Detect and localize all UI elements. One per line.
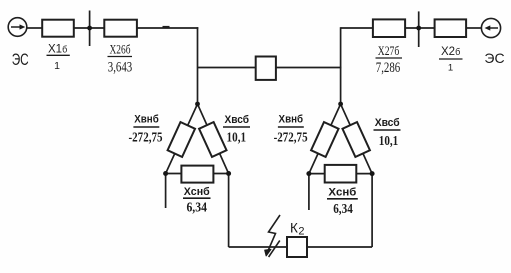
svg-text:7,286: 7,286 <box>376 60 401 76</box>
svg-text:3,643: 3,643 <box>108 59 133 75</box>
svg-text:Хвнб: Хвнб <box>279 114 304 126</box>
svg-text:-272,75: -272,75 <box>129 131 163 146</box>
svg-text:6,34: 6,34 <box>186 201 207 216</box>
svg-text:10,1: 10,1 <box>379 134 399 149</box>
svg-text:Хснб: Хснб <box>328 187 356 199</box>
svg-text:-272,75: -272,75 <box>274 131 308 146</box>
svg-text:1: 1 <box>448 62 453 73</box>
svg-text:Х1б: Х1б <box>48 43 67 55</box>
svg-text:Х26б: Х26б <box>110 42 131 56</box>
svg-text:Х27б: Х27б <box>378 44 400 58</box>
svg-text:10,1: 10,1 <box>227 131 247 146</box>
svg-text:Хвсб: Хвсб <box>375 117 400 129</box>
svg-text:6,34: 6,34 <box>333 202 353 217</box>
svg-text:Хвнб: Хвнб <box>134 114 159 126</box>
svg-text:ЭС: ЭС <box>12 51 29 69</box>
svg-text:ЭС: ЭС <box>484 50 504 66</box>
svg-text:Хвсб: Хвсб <box>225 114 250 126</box>
svg-text:К2: К2 <box>290 221 305 238</box>
svg-text:1: 1 <box>54 60 60 72</box>
svg-text:Хснб: Хснб <box>184 186 210 198</box>
svg-text:Х2б: Х2б <box>441 46 460 58</box>
